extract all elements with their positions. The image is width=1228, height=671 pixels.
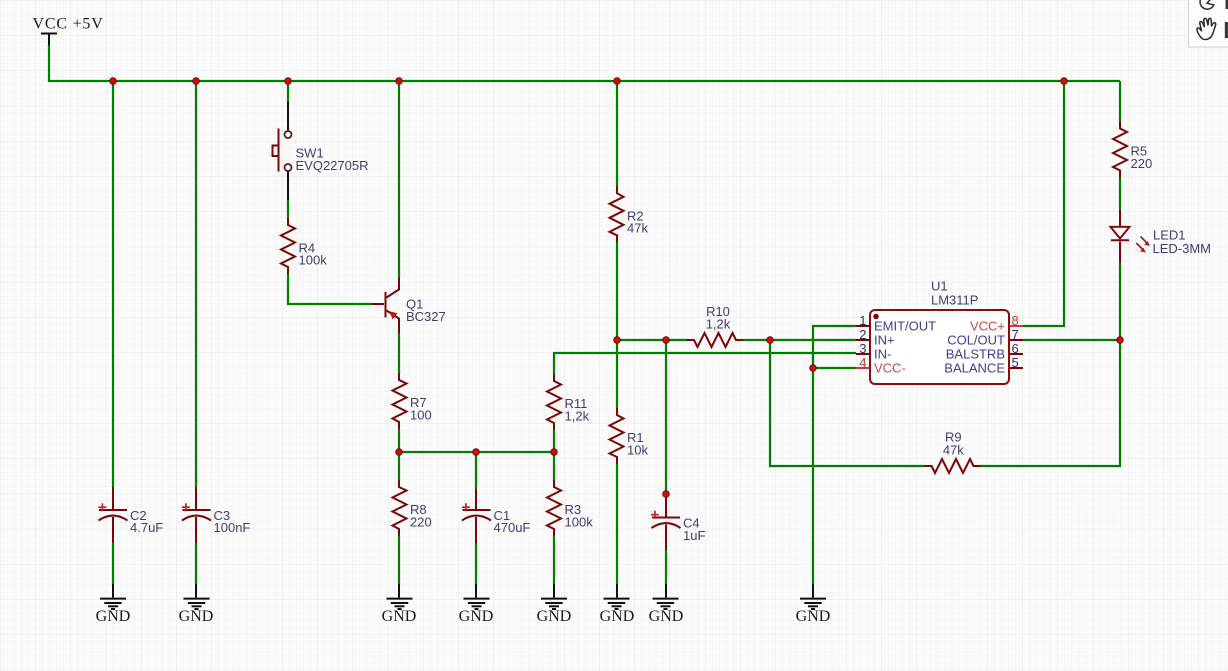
svg-text:2: 2 (859, 327, 866, 342)
node: rail-SW1 (285, 78, 292, 85)
capacitor C2 (98, 487, 127, 543)
svg-text:6: 6 (1012, 341, 1019, 356)
svg-text:5: 5 (1012, 355, 1019, 370)
node: C4 branch (663, 337, 670, 344)
node: R7-R8 row left (396, 449, 403, 456)
svg-text:COL/OUT: COL/OUT (947, 333, 1005, 348)
wire: rail to SW1 (287, 81, 289, 103)
wire: pin1 EMIT/OUT to vertical (813, 326, 856, 585)
svg-text:470uF: 470uF (494, 520, 531, 535)
pin 2 stub (856, 339, 870, 341)
wire: SW1 to R4 (287, 200, 289, 220)
wire: C2 top drop (112, 81, 114, 487)
power flag VCC (41, 34, 57, 46)
node: R9 branch (767, 337, 774, 344)
resistor R9 (925, 459, 981, 473)
node: R11-R3 row right (551, 449, 558, 456)
svg-text:220: 220 (1131, 156, 1153, 171)
wire: rail to R2 (616, 81, 618, 187)
svg-text:1: 1 (859, 313, 866, 328)
wire: R1 bottom to GND (616, 463, 618, 585)
wire: VCC net top rail (49, 45, 1120, 81)
node: rail-C2 (110, 78, 117, 85)
wire: rail to Q1 collector (398, 81, 400, 278)
wire: pin8 VCC+ up to rail (1023, 81, 1064, 326)
capacitor C1 (462, 489, 491, 543)
capacitor C3 (182, 487, 211, 543)
cursor tool icon (clipped) (1200, 0, 1214, 9)
wire: IN- net horizontal to R11 (554, 353, 856, 375)
pin 1 stub (856, 325, 870, 327)
node: VCC-/EMIT junction (810, 365, 817, 372)
node: rail-C3 (193, 78, 200, 85)
svg-text:1,2k: 1,2k (706, 317, 731, 332)
svg-text:4: 4 (859, 355, 866, 370)
pin 6 stub (1010, 353, 1024, 355)
ground GND7 (653, 584, 679, 609)
wire: R4 to Q1 base (288, 274, 371, 304)
svg-text:100: 100 (410, 407, 432, 422)
switch SW1 (273, 102, 292, 200)
wire: R11 to junction row (553, 429, 555, 481)
LED LED1 (1111, 210, 1151, 263)
capacitor C4 (651, 494, 681, 550)
ground GND1 (100, 584, 126, 609)
resistor R2 (610, 186, 624, 242)
wire: rail corner to R5 (1119, 81, 1121, 123)
wire: C3 bottom to GND (195, 543, 197, 586)
svg-text:8: 8 (1012, 313, 1019, 328)
wire: R3 to GND (553, 536, 555, 586)
svg-text:100k: 100k (565, 514, 594, 529)
wire: C3 top drop (195, 81, 197, 487)
resistor R4 (281, 218, 295, 274)
ground GND2 (184, 584, 210, 609)
svg-text:47k: 47k (627, 221, 648, 236)
toolbar (1189, 0, 1228, 47)
wire: R2 to IN+ node (616, 242, 618, 341)
transistor Q1 (371, 278, 399, 334)
op-amp U1 (LM311P comparator) (856, 310, 1023, 384)
node: C1 top (473, 449, 480, 456)
wire: C2 bottom to GND (112, 543, 114, 586)
wire: C1 top (475, 452, 477, 489)
svg-text:4.7uF: 4.7uF (130, 520, 163, 535)
ground GND5 (541, 584, 567, 609)
resistor R5 (1113, 122, 1127, 178)
svg-text:3: 3 (859, 341, 866, 356)
svg-text:VCC +5V: VCC +5V (33, 16, 104, 33)
wire: pin4 VCC- branch (813, 367, 856, 369)
svg-text:GND: GND (96, 608, 131, 625)
svg-text:LED-3MM: LED-3MM (1153, 241, 1212, 256)
hand tool icon (1197, 18, 1216, 39)
svg-text:10k: 10k (627, 442, 648, 457)
node: rail-R2 (614, 78, 621, 85)
svg-text:IN-: IN- (874, 347, 891, 362)
resistor R1 (610, 408, 624, 464)
svg-text:EVQ22705R: EVQ22705R (296, 158, 369, 173)
ground GND3 (387, 584, 413, 609)
wire: R5 to LED (1119, 177, 1121, 211)
wire: R7 to junction row (398, 429, 400, 481)
node: pin7-LED column (1117, 337, 1124, 344)
svg-text:100nF: 100nF (214, 520, 251, 535)
resistor R3 (547, 480, 561, 536)
svg-text:EMIT/OUT: EMIT/OUT (874, 319, 936, 334)
svg-text:GND: GND (796, 608, 831, 625)
svg-text:IN+: IN+ (874, 333, 895, 348)
svg-text:GND: GND (600, 608, 635, 625)
svg-text:BALSTRB: BALSTRB (946, 347, 1005, 362)
svg-text:GND: GND (382, 608, 417, 625)
wire: pin7 COL/OUT to LED column (1023, 339, 1120, 341)
node: C4 top (663, 491, 670, 498)
resistor R10 (687, 333, 743, 347)
svg-text:BC327: BC327 (406, 309, 446, 324)
partial icons at right edge (1226, 0, 1228, 9)
svg-text:GND: GND (459, 608, 494, 625)
svg-text:220: 220 (410, 514, 432, 529)
node: rail-VCC+ (1061, 78, 1068, 85)
resistor R11 (547, 374, 561, 430)
pin 8 stub (1010, 325, 1024, 327)
svg-text:1,2k: 1,2k (565, 408, 590, 423)
ground GND4 (464, 584, 490, 609)
svg-text:GND: GND (537, 608, 572, 625)
svg-text:BALANCE: BALANCE (944, 361, 1005, 376)
wire: R8 to GND (398, 536, 400, 586)
wire: C4 top drop (665, 340, 667, 494)
svg-text:GND: GND (649, 608, 684, 625)
svg-text:1uF: 1uF (683, 528, 705, 543)
pin 5 stub (1010, 367, 1024, 369)
wire: C1 bottom to GND (475, 543, 477, 586)
wire: C4 bottom to GND (665, 549, 667, 585)
svg-text:100k: 100k (299, 253, 328, 268)
ground GND8 (800, 584, 826, 609)
wire: Q1 emitter to R7 (398, 333, 400, 375)
wire: R1 top (616, 340, 618, 409)
pin 7 stub (1010, 339, 1024, 341)
wire: IN+ down to R9 left (770, 340, 926, 466)
node: rail-Q1 (396, 78, 403, 85)
wire: R10 right to pin2 (742, 339, 856, 341)
wire: junction row horizontal (399, 451, 554, 453)
ground GND6 (604, 584, 630, 609)
wire: IN+ node to R10 left (617, 339, 688, 341)
svg-text:7: 7 (1012, 327, 1019, 342)
resistor R8 (393, 480, 407, 536)
svg-text:47k: 47k (943, 442, 964, 457)
node: R2/R1/IN+ (614, 337, 621, 344)
svg-text:VCC+: VCC+ (970, 319, 1005, 334)
svg-text:LM311P: LM311P (931, 292, 978, 307)
resistor R7 (393, 373, 407, 429)
svg-text:GND: GND (179, 608, 214, 625)
pin 4 stub (856, 367, 870, 369)
wire: R9 right to LED column (980, 263, 1121, 466)
pin 3 stub (856, 353, 870, 355)
svg-text:VCC-: VCC- (874, 361, 906, 376)
